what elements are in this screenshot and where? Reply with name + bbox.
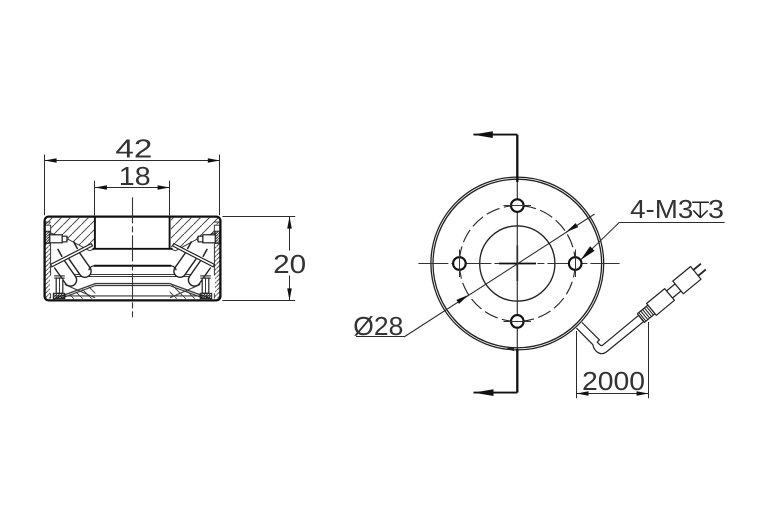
svg-text:20: 20 (273, 249, 306, 279)
svg-text:2000: 2000 (582, 366, 645, 396)
svg-text:4-M3: 4-M3 (630, 194, 693, 224)
svg-text:18: 18 (119, 161, 151, 191)
svg-text:42: 42 (115, 134, 152, 164)
svg-text:Ø28: Ø28 (353, 311, 403, 341)
svg-text:3: 3 (708, 194, 724, 224)
